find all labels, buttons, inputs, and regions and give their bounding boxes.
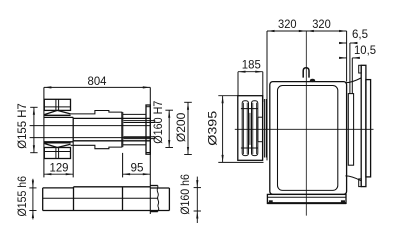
- bolt head line top: [241, 108, 258, 110]
- flange outer rect: [238, 96, 263, 161]
- stub top line: [150, 187, 169, 189]
- dimension D200 ticks: [184, 101, 192, 103]
- dimension D200 line: [187, 102, 189, 154]
- axis line: [235, 128, 374, 130]
- dimension 804 line: [44, 86, 150, 88]
- lower chevron: [44, 144, 70, 148]
- upper collar line: [123, 113, 146, 115]
- ext 320 left: [266, 31, 268, 160]
- svg-text:Ø200: Ø200: [174, 112, 188, 142]
- bore line upper: [30, 125, 151, 127]
- top line right: [74, 186, 151, 188]
- rear plate 1 top tab: [359, 65, 362, 73]
- ext 320 right: [346, 31, 348, 82]
- svg-text:Ø395: Ø395: [205, 110, 219, 145]
- dimension D160H7 ticks: [165, 109, 173, 111]
- dimension 320 line: [267, 30, 347, 32]
- lower block slot lines: [55, 148, 57, 159]
- ext D395 top: [218, 95, 238, 97]
- svg-text:804: 804: [88, 74, 107, 88]
- svg-text:320: 320: [312, 17, 331, 31]
- base block: [267, 194, 346, 203]
- section line 2: [122, 187, 124, 211]
- svg-text:95: 95: [131, 160, 144, 174]
- svg-text:Ø160 h6: Ø160 h6: [178, 174, 192, 215]
- ext D395 bottom: [218, 161, 263, 163]
- upper block mid line: [44, 106, 70, 108]
- dimension D160h6 ticks: [194, 187, 201, 189]
- svg-text:Ø155 H7: Ø155 H7: [15, 103, 29, 149]
- svg-text:Ø160 H7: Ø160 H7: [151, 100, 165, 143]
- dimension D200 arrows: [187, 102, 189, 154]
- dimension D160h6 line: [196, 177, 198, 223]
- dimension 804 arrows: [44, 86, 150, 88]
- dimension D160h6 arrows: [196, 180, 198, 218]
- main bottom line: [73, 140, 150, 142]
- center line vertical: [305, 31, 307, 216]
- base mid line: [267, 196, 346, 198]
- lower block mid line: [44, 151, 70, 153]
- left edge / extension line: [43, 87, 45, 177]
- lower keyway block: [44, 148, 70, 159]
- ext stubs right upper: [124, 120, 156, 122]
- dimension D155H7 line: [33, 107, 35, 152]
- bolt slot 2: [252, 101, 258, 156]
- bottom line: [43, 210, 170, 212]
- dimension D155h6 ticks: [29, 187, 36, 189]
- collar double verticals: [121, 112, 123, 147]
- rear plate 2: [366, 80, 371, 177]
- ext 185 right: [262, 72, 264, 102]
- base bottom thick: [267, 202, 346, 204]
- upper keyway block: [44, 99, 70, 110]
- hub ledge top: [258, 116, 263, 118]
- bolt head line bottom: [241, 147, 258, 149]
- lower boss profile: [71, 145, 123, 148]
- svg-text:6,5: 6,5: [352, 27, 368, 41]
- upper block slot lines: [55, 99, 57, 110]
- upper chevron baseline: [44, 114, 70, 116]
- dimension D395 arrows: [222, 96, 224, 163]
- dimension 6,5 line: [339, 42, 347, 44]
- mid line: [43, 197, 158, 199]
- dimension 95 ext left: [122, 153, 124, 178]
- bolt slot 1 inner: [243, 103, 245, 154]
- right flange inner lines: [146, 106, 150, 108]
- dimension D155h6 arrows: [32, 180, 34, 218]
- upper chevron: [44, 110, 70, 114]
- dimension D395 line: [222, 96, 224, 163]
- right flange rect: [146, 105, 150, 154]
- section line 1: [73, 187, 75, 211]
- svg-text:129: 129: [50, 160, 69, 174]
- svg-text:185: 185: [242, 57, 261, 71]
- hub right edge: [72, 117, 74, 141]
- dimension 129 ext right: [72, 142, 74, 178]
- lower collar line: [123, 144, 146, 146]
- rear plate 1: [361, 65, 366, 186]
- dimension 129 line: [44, 173, 73, 175]
- dimension D155h6 line: [32, 179, 34, 220]
- svg-text:Ø155 h6: Ø155 h6: [15, 176, 29, 217]
- ext stubs right lower: [124, 136, 156, 138]
- dimension 6,5 arrows: [339, 42, 357, 44]
- right edge / extension line: [149, 87, 151, 214]
- hub top line: [44, 116, 73, 118]
- end collar bottom: [150, 211, 158, 213]
- dimension 185 arrows: [238, 71, 263, 73]
- end collar top: [150, 185, 158, 187]
- stub end edge: [168, 188, 170, 211]
- dimension D155H7 arrows: [33, 107, 35, 152]
- dimension 10,5 line: [339, 57, 347, 59]
- main top line: [73, 117, 150, 119]
- housing inner: [278, 86, 338, 191]
- rear plate 1 bottom tab: [359, 179, 362, 187]
- dimension D155H7 ticks: [30, 106, 37, 108]
- rear hub rect: [348, 94, 353, 166]
- bore line lower: [30, 137, 151, 139]
- bolt slot 2 inner: [252, 103, 254, 154]
- hub ledge bottom: [258, 141, 263, 143]
- ext 6,5: [349, 43, 351, 94]
- dimension 95 line: [123, 173, 151, 175]
- dimension 320 arrows: [267, 30, 347, 32]
- dimension 185 line: [238, 71, 263, 73]
- upper boss profile: [71, 111, 123, 114]
- foot pad right: [341, 200, 345, 203]
- dimension 10,5 arrows: [339, 57, 360, 59]
- foot pad left: [269, 200, 273, 203]
- rear curve top: [345, 78, 361, 83]
- svg-text:10,5: 10,5: [354, 43, 376, 57]
- bolt slot 1: [242, 101, 248, 156]
- svg-text:320: 320: [278, 17, 297, 31]
- hub ledge edge: [257, 117, 259, 142]
- dimension D160H7 line: [168, 110, 170, 147]
- housing outer: [270, 82, 347, 195]
- ext 185 left: [237, 72, 239, 96]
- center channel lines: [249, 113, 251, 145]
- hub bottom line: [44, 141, 73, 143]
- rear curve bottom: [345, 176, 361, 181]
- dimension D160H7 arrows: [168, 110, 170, 147]
- plug dot: [310, 79, 315, 82]
- dimension 129 arrows: [44, 173, 73, 175]
- top line left: [43, 187, 74, 189]
- ext 10,5: [351, 58, 353, 94]
- cover plate lines: [263, 99, 265, 158]
- end collar edges: [157, 186, 159, 212]
- dimension 95 arrows: [123, 173, 151, 175]
- lifting eye: [303, 68, 309, 78]
- left end edge: [42, 188, 44, 211]
- break squiggle: [157, 188, 159, 210]
- lower chevron baseline: [44, 142, 70, 144]
